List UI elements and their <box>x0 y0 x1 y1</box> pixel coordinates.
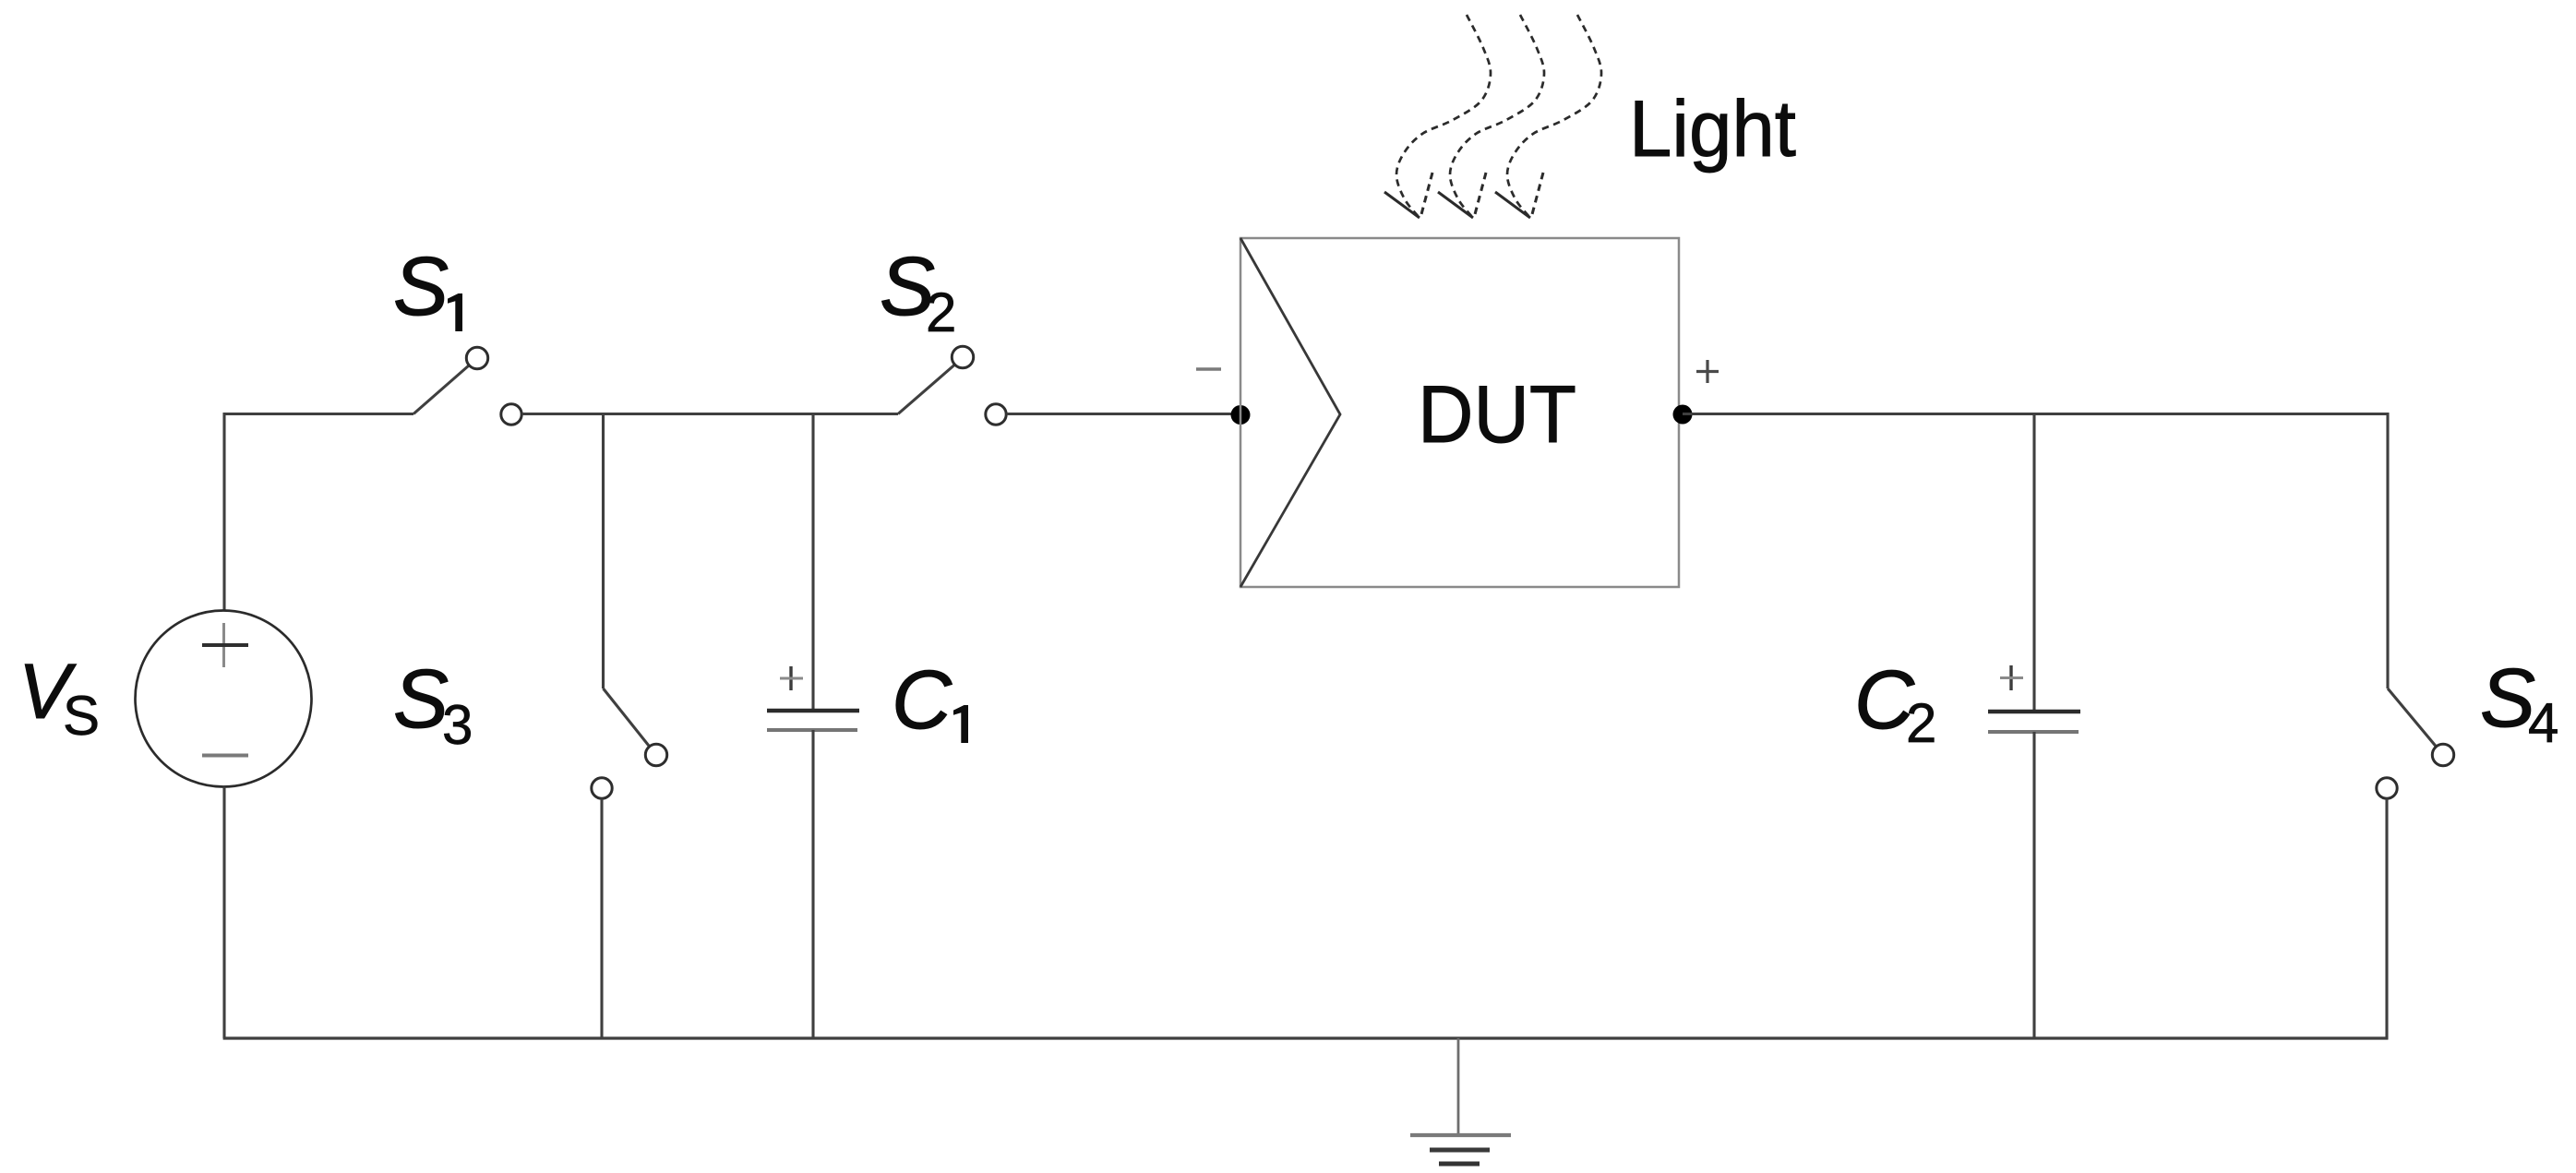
label S1 <box>393 241 462 333</box>
svg-text:S: S <box>393 653 449 746</box>
wire top rail middle segment <box>522 413 899 415</box>
svg-text:C: C <box>892 654 953 747</box>
plus sign at DUT output <box>1696 360 1719 383</box>
wire DUT to right corner <box>1683 413 2389 415</box>
svg-text:2: 2 <box>1906 692 1936 754</box>
voltage source VS <box>136 611 312 787</box>
C2 polarity plus <box>2000 665 2023 690</box>
node DUT plus terminal <box>1673 405 1693 425</box>
wire bottom rail <box>223 1036 2389 1039</box>
light arrow 2 <box>1438 15 1544 218</box>
wire left rail upper <box>222 413 225 611</box>
switch S3 <box>592 688 667 798</box>
label S4 <box>2480 652 2558 754</box>
switch S4 <box>2377 688 2454 798</box>
switch S1 <box>413 347 521 425</box>
wire S2 to DUT <box>1007 413 1241 415</box>
capacitor C2 <box>1988 414 2080 1039</box>
svg-text:S: S <box>63 685 100 747</box>
svg-text:Light: Light <box>1629 85 1796 174</box>
label S3 <box>393 653 473 756</box>
light arrow 1 <box>1384 15 1491 218</box>
wire right rail upper <box>2386 413 2389 688</box>
wire top rail left segment <box>223 413 413 415</box>
wire left rail lower <box>222 787 225 1039</box>
svg-text:DUT: DUT <box>1418 368 1576 460</box>
wire S3 stem <box>602 414 605 689</box>
minus sign at DUT input <box>1196 367 1221 370</box>
capacitor C1 <box>767 414 859 1039</box>
DUT chevron <box>1240 238 1340 587</box>
svg-text:3: 3 <box>442 694 473 756</box>
wire S4 lower <box>2385 798 2388 1039</box>
label C2 <box>1854 654 1936 754</box>
switch S2 <box>898 346 1006 425</box>
svg-text:2: 2 <box>926 281 956 343</box>
wire S3 lower <box>600 798 603 1038</box>
DUT box <box>1240 238 1679 587</box>
label VS <box>18 648 100 747</box>
ground <box>1410 1038 1511 1164</box>
light arrow 3 <box>1495 15 1601 218</box>
C1 polarity plus <box>780 666 803 690</box>
svg-text:S: S <box>393 241 449 333</box>
label C1 <box>892 654 968 747</box>
node DUT minus terminal <box>1231 405 1251 425</box>
label S2 <box>880 241 956 343</box>
svg-text:4: 4 <box>2528 692 2558 754</box>
